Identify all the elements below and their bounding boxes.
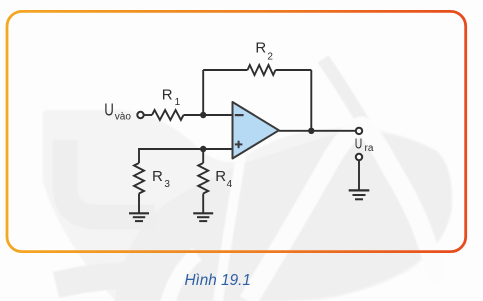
- label R3: [152, 168, 170, 190]
- wire noninverting input row: [139, 149, 233, 163]
- ground symbol (R3): [129, 213, 149, 221]
- wire op-amp output to terminal: [279, 130, 356, 132]
- node A junction dot (R1/R2/inverting input): [200, 112, 206, 118]
- input terminal circle: [137, 112, 143, 118]
- svg-text:R: R: [162, 87, 173, 104]
- wire node A up to R2 row: [202, 70, 204, 115]
- output terminal circle bottom: [356, 154, 362, 160]
- wire R1 to inverting input: [184, 114, 233, 116]
- wire output terminal to ground: [358, 160, 360, 190]
- svg-text:4: 4: [227, 179, 233, 190]
- background watermark (decorative): [43, 59, 452, 301]
- label R2: [255, 40, 273, 63]
- wire R2 right lead: [276, 69, 312, 71]
- svg-text:U: U: [104, 99, 114, 119]
- svg-text:R: R: [215, 168, 226, 185]
- ground symbol (R4): [193, 213, 213, 221]
- resistor R1: [152, 110, 184, 120]
- op-amp U1: [233, 102, 279, 159]
- resistor R4: [198, 163, 208, 194]
- wire input terminal to R1: [144, 114, 152, 116]
- svg-text:R: R: [152, 168, 163, 185]
- wire R3 to ground: [138, 194, 140, 214]
- resistor R3: [134, 163, 144, 194]
- wire R2 down to output node: [310, 70, 312, 131]
- svg-text:1: 1: [175, 97, 181, 108]
- label R1: [162, 87, 181, 108]
- wire R2 left lead: [203, 69, 247, 71]
- label U_ra: [355, 136, 374, 154]
- frame border (decorative): [7, 11, 466, 251]
- resistor R2: [248, 65, 276, 75]
- node B junction dot (output/R2): [308, 128, 314, 134]
- svg-text:2: 2: [267, 52, 273, 63]
- wire node C down to R4: [202, 149, 204, 163]
- wire R4 to ground: [202, 194, 204, 214]
- svg-text:R: R: [255, 40, 266, 57]
- svg-text:Hình 19.1: Hình 19.1: [185, 272, 251, 289]
- svg-text:U: U: [355, 136, 363, 153]
- label R4: [215, 168, 232, 190]
- svg-text:3: 3: [164, 179, 170, 190]
- node C junction dot (R4/noninverting input): [200, 146, 206, 152]
- label U_vao: [104, 99, 131, 122]
- ground symbol (output): [349, 190, 370, 199]
- output terminal circle top: [356, 128, 362, 134]
- svg-text:vào: vào: [115, 112, 132, 123]
- svg-text:ra: ra: [365, 143, 374, 154]
